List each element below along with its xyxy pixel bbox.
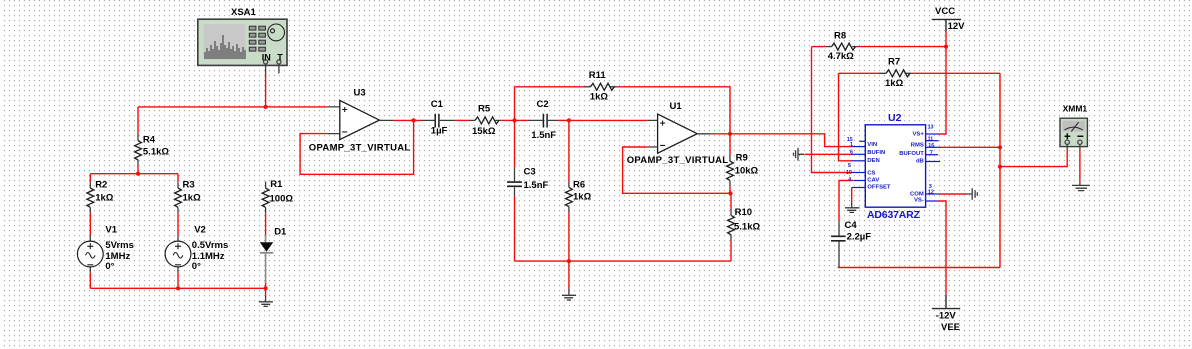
- svg-text:VS-: VS-: [914, 197, 924, 203]
- pin CAV stub: [853, 180, 865, 182]
- pin 11 RMS stub: [926, 140, 939, 142]
- svg-text:7: 7: [930, 150, 933, 156]
- svg-text:R3: R3: [183, 180, 195, 191]
- svg-text:11: 11: [928, 136, 934, 142]
- svg-text:OPAMP_3T_VIRTUAL: OPAMP_3T_VIRTUAL: [309, 142, 411, 153]
- wire node B up to R11 line: [514, 87, 516, 121]
- op-amp U1: [658, 114, 698, 153]
- AC source V1: [77, 241, 103, 267]
- wire R9 top lead: [729, 134, 731, 155]
- svg-text:VS+: VS+: [912, 131, 924, 137]
- svg-text:T: T: [277, 53, 283, 63]
- svg-text:5Vrms: 5Vrms: [105, 240, 134, 251]
- svg-text:XSA1: XSA1: [231, 7, 257, 18]
- wire R4 top lead: [137, 107, 139, 134]
- svg-text:1.5nF: 1.5nF: [524, 180, 549, 191]
- wire mid bottom rail: [515, 260, 732, 262]
- wire VS- down to VEE: [938, 201, 946, 295]
- wire R6 top lead: [568, 120, 570, 181]
- node junction R8/VCC rail: [944, 45, 948, 49]
- svg-text:U2: U2: [888, 112, 902, 124]
- capacitor C3: [507, 182, 522, 186]
- svg-text:BUFOUT: BUFOUT: [899, 151, 924, 157]
- node junction XSA1/rail: [264, 105, 268, 109]
- wire CAV down to C4: [839, 181, 853, 222]
- pin 15 stub: [859, 140, 865, 142]
- wire U3 output to C1: [394, 119, 423, 121]
- wire R4 bottom lead: [137, 166, 139, 174]
- svg-text:dB: dB: [916, 158, 924, 164]
- ground mid (R6): [562, 289, 576, 300]
- svg-text:VCC: VCC: [935, 6, 955, 17]
- node junction U3 output: [412, 118, 416, 122]
- svg-text:DEN: DEN: [867, 158, 879, 164]
- lead V2: [177, 235, 179, 272]
- svg-text:4.7kΩ: 4.7kΩ: [828, 51, 854, 62]
- wire R8 left segment: [812, 46, 826, 48]
- resistor R7: [886, 70, 910, 77]
- lead R7: [879, 72, 912, 74]
- svg-text:0.5Vrms: 0.5Vrms: [192, 240, 228, 251]
- resistor R9: [727, 161, 734, 180]
- node junction C (C2/R6/U1+): [567, 118, 571, 122]
- wire R2 to V1: [89, 213, 91, 235]
- wire R7 left leg down to DEN pin: [839, 73, 852, 161]
- wire C3 bottom to mid rail: [514, 196, 516, 261]
- svg-text:1kΩ: 1kΩ: [885, 78, 904, 89]
- svg-text:1kΩ: 1kΩ: [590, 92, 609, 103]
- VCC supply symbol: [932, 19, 961, 31]
- svg-text:IN: IN: [262, 53, 271, 63]
- wire XMM1 minus lead: [1079, 150, 1081, 183]
- svg-text:AD637ARZ: AD637ARZ: [867, 209, 921, 221]
- lead V1: [89, 235, 91, 272]
- svg-text:-12V: -12V: [936, 311, 957, 322]
- capacitor C2: [543, 114, 547, 128]
- wire R7 left segment: [839, 72, 880, 74]
- svg-text:1.5nF: 1.5nF: [531, 130, 556, 141]
- svg-text:U3: U3: [354, 88, 366, 99]
- svg-text:C4: C4: [845, 220, 858, 231]
- wire U1 output to U2 VIN: [711, 134, 852, 147]
- node junction U1 output: [728, 132, 732, 136]
- wire BUFOUT to node D: [941, 146, 1001, 148]
- svg-text:CAV: CAV: [867, 177, 879, 183]
- pin OFFSET stub: [852, 187, 866, 189]
- lead R9: [729, 155, 731, 186]
- IC U2 AD637ARZ body: [851, 125, 940, 207]
- wire node C to U1 plus input: [569, 119, 647, 121]
- svg-text:R6: R6: [573, 179, 585, 190]
- svg-text:16: 16: [928, 143, 934, 149]
- wire R1 to D1: [265, 213, 267, 235]
- lead C2: [529, 119, 558, 121]
- svg-text:0°: 0°: [192, 261, 201, 272]
- svg-text:V1: V1: [105, 225, 117, 236]
- wire R10 top lead: [730, 193, 732, 209]
- node junction D1 bottom: [264, 286, 268, 290]
- node junction XMM wire/vert: [998, 165, 1002, 169]
- svg-text:12V: 12V: [948, 21, 966, 32]
- pin 12 VS- stub: [926, 200, 939, 202]
- svg-text:C3: C3: [524, 166, 536, 177]
- svg-text:10kΩ: 10kΩ: [735, 165, 759, 176]
- ground OFFSET: [845, 202, 860, 212]
- svg-text:R5: R5: [478, 104, 491, 115]
- wire C1 to R5: [456, 119, 469, 121]
- svg-text:V2: V2: [194, 225, 206, 236]
- svg-text:D1: D1: [274, 227, 287, 238]
- wire U1 feedback loop: [623, 147, 731, 193]
- svg-text:C2: C2: [537, 99, 549, 110]
- lead R10: [730, 210, 732, 241]
- svg-text:5: 5: [848, 163, 851, 169]
- wire R7 right leg down to VEE rail: [999, 73, 1001, 267]
- svg-text:1µF: 1µF: [431, 126, 448, 137]
- svg-text:100Ω: 100Ω: [270, 194, 294, 205]
- wire R11 left segment: [515, 86, 584, 88]
- svg-text:1kΩ: 1kΩ: [573, 192, 592, 203]
- svg-text:R11: R11: [589, 70, 607, 81]
- pin DEN stub: [851, 160, 865, 162]
- diode D1: [260, 235, 273, 283]
- wire R8 leg down to CS pin: [812, 47, 852, 173]
- wire R5 to node B: [501, 119, 514, 121]
- pin dB stub: [926, 161, 941, 163]
- lead R4: [137, 134, 139, 166]
- svg-text:OFFSET: OFFSET: [867, 184, 891, 190]
- lead C1: [422, 119, 456, 121]
- lead C4: [838, 221, 840, 267]
- lead R2: [89, 182, 91, 213]
- XSA1 T terminal: [277, 60, 281, 64]
- svg-text:C1: C1: [431, 99, 444, 110]
- wire OFFSET down to ground: [851, 188, 853, 203]
- lead R3: [177, 182, 179, 213]
- pin 13 VS+ stub: [926, 133, 940, 135]
- wire bottom-left rail: [90, 287, 265, 289]
- pin 16 BUFOUT stub: [926, 146, 941, 148]
- svg-text:RMS: RMS: [911, 143, 924, 149]
- resistor R8: [832, 43, 856, 50]
- lead R11: [584, 86, 617, 88]
- svg-text:XMM1: XMM1: [1063, 104, 1088, 114]
- svg-text:15kΩ: 15kΩ: [472, 126, 496, 137]
- lead R6: [568, 182, 570, 213]
- spectrum analyzer XSA1: [198, 19, 287, 74]
- svg-text:10: 10: [846, 170, 852, 176]
- wire R10 bottom lead to mid rail: [730, 241, 732, 262]
- svg-text:0°: 0°: [105, 261, 114, 272]
- lead R8: [825, 46, 858, 48]
- wire y174 bus R2-R3: [90, 173, 178, 175]
- svg-text:1kΩ: 1kΩ: [183, 192, 202, 203]
- pin 6 BUFIN stub: [851, 153, 865, 155]
- svg-text:12: 12: [928, 190, 934, 196]
- wire R3 top lead: [177, 174, 179, 183]
- node junction R4 bottom: [136, 172, 140, 176]
- ground BUFIN (rotated left): [794, 148, 805, 161]
- svg-text:R10: R10: [735, 207, 752, 218]
- resistor R3: [175, 188, 182, 207]
- wire VEE bottom rail: [838, 267, 1000, 269]
- ground COM (rotated right): [967, 188, 978, 200]
- wire node B down to C3: [514, 120, 516, 167]
- svg-text:1kΩ: 1kΩ: [95, 192, 114, 203]
- svg-text:R2: R2: [95, 180, 107, 191]
- wire R8 right segment to VCC rail: [858, 46, 946, 48]
- pin CS stub: [851, 172, 865, 174]
- pin 1 VIN stub: [851, 146, 865, 148]
- node junction R6/mid rail: [567, 259, 571, 263]
- svg-text:U1: U1: [670, 101, 683, 112]
- node junction BUFOUT/vert: [998, 145, 1002, 149]
- svg-text:VEE: VEE: [941, 322, 960, 333]
- resistor R6: [566, 187, 573, 206]
- wire U3 feedback loop: [300, 120, 414, 174]
- svg-text:1: 1: [850, 142, 853, 148]
- VEE supply symbol: [932, 295, 960, 309]
- pin 3 COM stub: [926, 193, 940, 195]
- node junction B (R5/C2/C3/R11): [512, 118, 516, 122]
- wire main rail node A y107: [138, 106, 328, 108]
- XSA1 IN terminal: [264, 60, 268, 64]
- svg-text:13: 13: [928, 125, 934, 131]
- AC source V2: [165, 241, 191, 267]
- resistor R1: [262, 188, 269, 207]
- pin 7 stub: [926, 154, 939, 156]
- wire V1 bottom: [89, 273, 91, 289]
- lead R5: [469, 119, 501, 121]
- capacitor C4: [831, 236, 846, 241]
- svg-text:OPAMP_3T_VIRTUAL: OPAMP_3T_VIRTUAL: [627, 155, 729, 166]
- wire XMM1 plus lead: [1000, 150, 1067, 167]
- wire BUFIN to ground: [805, 153, 852, 155]
- svg-text:VIN: VIN: [867, 142, 877, 148]
- wire V2 bottom: [177, 273, 179, 289]
- svg-text:R9: R9: [736, 153, 748, 164]
- svg-text:CS: CS: [867, 171, 875, 177]
- wire C2 to node C: [558, 119, 569, 121]
- svg-text:R4: R4: [143, 134, 156, 145]
- op-amp U3: [340, 100, 380, 139]
- svg-text:R8: R8: [834, 31, 846, 42]
- resistor R4: [135, 141, 142, 160]
- wire COM to ground: [940, 193, 967, 195]
- svg-text:R1: R1: [270, 179, 283, 190]
- wire R2 top lead: [89, 174, 91, 183]
- wire XSA1 IN drop: [265, 74, 267, 107]
- svg-text:6: 6: [850, 150, 853, 156]
- wire R7 right segment: [912, 72, 1000, 74]
- svg-text:R7: R7: [888, 57, 900, 68]
- multimeter XMM1: [1060, 118, 1087, 149]
- svg-text:5.1kΩ: 5.1kΩ: [734, 222, 760, 233]
- resistor R2: [87, 188, 94, 207]
- lead C3: [514, 168, 516, 196]
- ground D1: [259, 296, 273, 307]
- wire D1 to ground junction: [265, 283, 267, 296]
- node junction R9/R10/feedback: [728, 191, 732, 195]
- wire R9 bottom lead: [729, 186, 731, 193]
- node junction V2 bottom: [176, 286, 180, 290]
- resistor R11: [590, 83, 614, 90]
- wire VCC rail down to VS+: [939, 32, 946, 135]
- ground XMM1: [1072, 183, 1090, 191]
- wire node B to C2: [515, 119, 529, 121]
- svg-text:4: 4: [848, 177, 851, 183]
- resistor R10: [728, 215, 735, 234]
- wire R3 to V2: [177, 213, 179, 235]
- svg-text:5.1kΩ: 5.1kΩ: [143, 146, 169, 157]
- lead R1: [265, 182, 267, 214]
- svg-text:2.2µF: 2.2µF: [847, 232, 872, 243]
- wire R6 bottom through mid rail to ground: [568, 213, 570, 289]
- wire R11 right segment down to U1 output: [617, 87, 730, 134]
- resistor R5: [475, 117, 499, 124]
- capacitor C1: [435, 114, 439, 128]
- svg-text:BUFIN: BUFIN: [867, 150, 885, 156]
